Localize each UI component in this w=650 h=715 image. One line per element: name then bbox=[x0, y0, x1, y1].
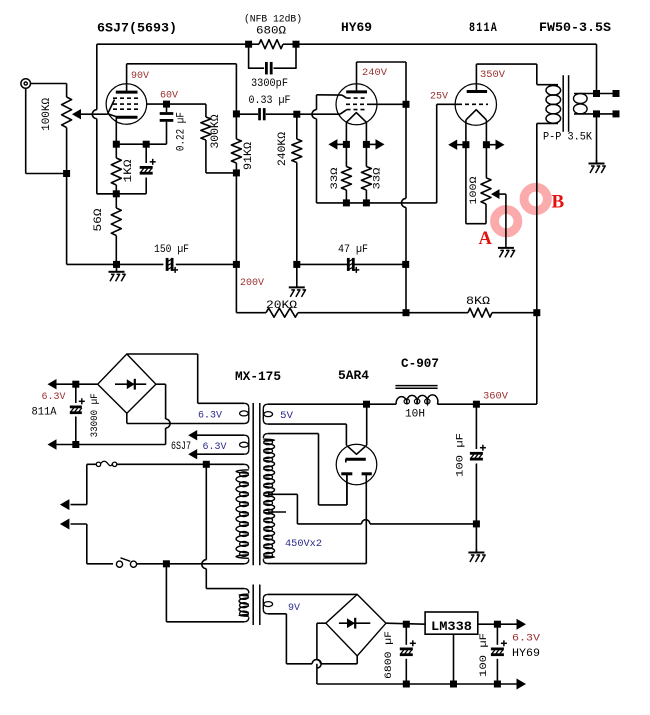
transformer 9V core bbox=[252, 585, 254, 626]
svg-text:350V: 350V bbox=[480, 69, 506, 81]
811A grid dashes bbox=[458, 103, 488, 105]
6SJ7 cathode bbox=[116, 116, 138, 119]
svg-text:240KΩ: 240KΩ bbox=[277, 132, 289, 166]
capacitor cathode bypass electrolytic bbox=[145, 144, 147, 163]
svg-text:811A: 811A bbox=[32, 407, 57, 419]
resistor 20K bbox=[266, 308, 298, 317]
wiper arrow 100ohm bbox=[491, 189, 500, 199]
wire AC input bottom bbox=[71, 523, 87, 525]
resistor 56ohm bbox=[115, 194, 117, 208]
resistor 1K cathode bbox=[115, 144, 117, 158]
wire OPT primary top lead bbox=[537, 84, 558, 86]
svg-text:FW50-3.5S: FW50-3.5S bbox=[539, 20, 611, 35]
arrow HY69 heater right bbox=[376, 139, 385, 149]
wire pot bottom to ground bus bbox=[66, 174, 68, 265]
svg-text:33Ω: 33Ω bbox=[329, 168, 341, 190]
svg-text:20KΩ: 20KΩ bbox=[266, 300, 297, 312]
wire NFB drop to 1K bottom bbox=[96, 44, 98, 110]
HY69 plate bbox=[346, 90, 367, 93]
wire wiper to ground bbox=[505, 194, 507, 246]
wire OPT secondary bottom bbox=[574, 113, 616, 115]
input jack bbox=[21, 79, 31, 89]
svg-text:6.3V: 6.3V bbox=[198, 410, 223, 422]
transformer MX core bbox=[252, 403, 254, 565]
node cathode junction row bbox=[116, 143, 166, 145]
arrow AC in 1 bbox=[60, 499, 70, 510]
tube V4 5AR4 envelope bbox=[336, 444, 377, 485]
wire fuse line bbox=[87, 463, 97, 465]
HY69 grid row1 dashes bbox=[347, 97, 367, 99]
wire NFB rail left segment bbox=[97, 43, 249, 45]
HY69 grid row2 dashes bbox=[346, 103, 369, 105]
wire heater 6SJ7 top bbox=[197, 434, 245, 436]
svg-text:680Ω: 680Ω bbox=[256, 26, 286, 38]
6SJ7 plate bbox=[116, 91, 138, 94]
wire 9V bridge DC+ lead bbox=[386, 623, 425, 624]
arrow ground rail out bbox=[517, 678, 527, 689]
wire plate rail down bbox=[235, 64, 237, 114]
wire heater 6SJ7 bottom bbox=[197, 453, 245, 455]
svg-text:150 µF: 150 µF bbox=[154, 244, 189, 256]
wire NFB rail from secondary to 680 network bbox=[297, 43, 597, 45]
wire 9V sec top to bridge bbox=[268, 593, 357, 595]
bridge rectifier main bbox=[98, 354, 156, 413]
wire bridge DC- leg bbox=[156, 383, 166, 385]
wire 811A fil left leg to pot bbox=[465, 145, 467, 224]
6SJ7 grid3 dashes bbox=[113, 108, 140, 110]
HY69 filament bbox=[346, 113, 366, 123]
wire B+ riser bbox=[536, 123, 538, 312]
capacitor 0.22uF bbox=[166, 104, 168, 112]
svg-text:33Ω: 33Ω bbox=[372, 168, 384, 190]
ground at 6SJ7 cathode bus bbox=[116, 264, 118, 271]
resistor 680ohm NFB bbox=[259, 40, 283, 49]
node HY69 filament terminals bbox=[343, 141, 350, 148]
svg-text:811A: 811A bbox=[469, 21, 498, 35]
svg-text:60V: 60V bbox=[160, 90, 179, 102]
capacitor 100uF LM bbox=[496, 624, 498, 645]
transformer OPT core bbox=[562, 75, 564, 132]
wire 811A plate to OPT bbox=[475, 64, 477, 91]
wiper arrow of 100K pot bbox=[72, 109, 81, 119]
resistor 91K plate load bbox=[235, 114, 237, 139]
HY69 grid row3 dashes bbox=[347, 109, 367, 111]
wire HY69 plate to 240V rail bbox=[356, 62, 358, 92]
tube V2 HY69 envelope bbox=[336, 84, 377, 125]
wire ground rail bottom bbox=[406, 683, 516, 685]
wire OPT secondary top bbox=[574, 93, 616, 95]
tube V3 811A envelope bbox=[455, 84, 496, 125]
svg-text:P-P 3.5K: P-P 3.5K bbox=[543, 132, 592, 144]
wire 811A filament legs bbox=[465, 120, 467, 145]
svg-text:0.22 µF: 0.22 µF bbox=[176, 112, 188, 151]
svg-text:6SJ7: 6SJ7 bbox=[171, 441, 191, 453]
arrow 811A heater left bbox=[448, 139, 457, 149]
ground PSU main bbox=[475, 549, 477, 553]
svg-text:6.3V: 6.3V bbox=[203, 441, 228, 453]
switch bbox=[116, 561, 122, 567]
svg-text:1KΩ: 1KΩ bbox=[123, 159, 135, 182]
arrow 6.3V 811A plus bbox=[56, 383, 76, 385]
wire 91K bottom to 200V node bbox=[235, 173, 237, 265]
svg-text:MX-175: MX-175 bbox=[235, 369, 281, 384]
wire 5V bottom lead bbox=[268, 423, 347, 425]
6SJ7 grid chevron bbox=[108, 100, 117, 117]
winding 6.3V 6SJ7 bbox=[244, 435, 249, 440]
wire 6SJ7 plate to 90V rail bbox=[126, 64, 128, 92]
wire bridge AC1 bbox=[127, 353, 198, 355]
winding 6.3V 811A bbox=[244, 403, 249, 408]
wire parallel feed down bbox=[205, 464, 207, 559]
wire winding1 top lead bbox=[198, 402, 245, 404]
svg-text:360V: 360V bbox=[483, 391, 509, 403]
wire 5AR4 filament right to B+ bbox=[366, 404, 368, 445]
node B marker ring bbox=[524, 187, 547, 210]
wire bridge AC2 bbox=[126, 413, 128, 423]
svg-text:(NFB 12dB): (NFB 12dB) bbox=[244, 14, 302, 26]
svg-text:91KΩ: 91KΩ bbox=[243, 142, 255, 170]
arrow 6.3V 811A minus bbox=[56, 444, 76, 446]
resistor 33ohm left bbox=[345, 144, 347, 166]
svg-text:100 µF: 100 µF bbox=[455, 433, 467, 477]
5AR4 filament bbox=[346, 445, 366, 454]
svg-text:9V: 9V bbox=[288, 602, 301, 614]
wire 811A grid entry bbox=[437, 103, 458, 105]
svg-text:6.3V: 6.3V bbox=[512, 633, 541, 645]
svg-text:B: B bbox=[552, 192, 565, 213]
svg-text:5AR4: 5AR4 bbox=[338, 368, 369, 383]
capacitor 0.33uF coupling bbox=[236, 113, 258, 115]
svg-text:6.3V: 6.3V bbox=[42, 391, 67, 403]
wire bridge DC+ to cap bbox=[76, 383, 98, 385]
811A filament bbox=[466, 110, 487, 120]
ground bus segment 1 with 150uF bbox=[117, 263, 164, 265]
capacitor 3300pF bbox=[249, 44, 265, 68]
5AR4 plate left bbox=[341, 472, 352, 475]
svg-text:10H: 10H bbox=[405, 409, 425, 421]
wire AC input top bbox=[86, 464, 88, 504]
wire coupling to HY69 grid bbox=[297, 113, 340, 115]
fuse bbox=[96, 462, 100, 466]
stub 450V tap2 bbox=[268, 511, 286, 513]
ground at 240K bus bbox=[296, 264, 298, 287]
wire 5V top lead to B+ node bbox=[268, 403, 367, 405]
svg-text:6800 µF: 6800 µF bbox=[383, 631, 395, 679]
svg-text:5V: 5V bbox=[280, 410, 294, 422]
resistor 300K bbox=[205, 104, 207, 117]
regulator LM338 box bbox=[425, 612, 478, 634]
choke C-907 coil bbox=[396, 395, 438, 404]
tube V1 6SJ7 envelope bbox=[106, 84, 147, 125]
svg-text:LM338: LM338 bbox=[431, 619, 472, 634]
wire switch to primary bottom bbox=[137, 563, 245, 565]
svg-text:C-907: C-907 bbox=[401, 356, 439, 371]
potentiometer 100K bbox=[62, 97, 72, 128]
svg-text:450Vx2: 450Vx2 bbox=[285, 538, 322, 550]
wire 450V tap bbox=[268, 493, 297, 495]
transformer OPT primary coil bbox=[546, 86, 561, 96]
wire OPT primary bottom lead bbox=[537, 122, 558, 124]
ground hum pot bbox=[505, 246, 507, 248]
diode in 9V bridge bbox=[339, 622, 370, 624]
svg-text:100 µF: 100 µF bbox=[478, 633, 490, 677]
svg-text:100KΩ: 100KΩ bbox=[41, 98, 53, 131]
capacitor 47uF electrolytic bbox=[347, 258, 350, 271]
arrow 6.3V output bbox=[517, 619, 527, 630]
ground OPT secondary bbox=[596, 160, 598, 164]
wire 6SJ7 screen to 60V node bbox=[146, 103, 206, 105]
svg-text:3300pF: 3300pF bbox=[251, 78, 288, 90]
wire 5AR4 plate leads bbox=[346, 474, 348, 505]
6SJ7 grid2 dashes bbox=[113, 103, 141, 105]
wire HY69 anode rail down bbox=[405, 62, 407, 104]
winding 9V secondary bbox=[263, 594, 268, 599]
wire screen drop bbox=[316, 95, 318, 110]
node 1K bottom row bbox=[97, 193, 146, 195]
wire 9V primary bottom feed bbox=[165, 564, 167, 622]
arrow AC in 2 bbox=[60, 518, 70, 529]
wire HY69 beam plates to anode bbox=[369, 103, 406, 105]
wire bias line to 811A grid bbox=[317, 202, 437, 204]
svg-text:HY69: HY69 bbox=[512, 648, 540, 660]
wire LM338 adj pin bbox=[453, 634, 455, 684]
wire jack sleeve to pot bottom bbox=[25, 88, 27, 173]
node A marker ring bbox=[495, 210, 518, 233]
wire secondary bottom to ground bbox=[596, 114, 598, 163]
811A plate bbox=[467, 90, 487, 93]
winding 9V primary bbox=[244, 589, 249, 594]
wire 450V bottom lead bbox=[268, 563, 367, 565]
svg-text:A: A bbox=[479, 229, 493, 249]
resistor 33ohm right bbox=[365, 144, 367, 166]
arrow 811A heater right bbox=[496, 139, 505, 149]
wire HY69 screen tie bbox=[342, 95, 347, 98]
diode in main bridge bbox=[115, 383, 146, 385]
svg-text:90V: 90V bbox=[131, 70, 150, 82]
6SJ7 grid1 dashes bbox=[113, 97, 140, 99]
svg-text:0.33 µF: 0.33 µF bbox=[249, 95, 291, 107]
svg-text:200V: 200V bbox=[240, 277, 265, 289]
winding primary main bbox=[244, 464, 249, 469]
capacitor 100uF PSU bbox=[475, 404, 477, 449]
svg-text:240V: 240V bbox=[362, 67, 388, 79]
bridge rectifier 9V bbox=[326, 594, 386, 656]
capacitor 6800uF bbox=[405, 624, 407, 645]
svg-text:8KΩ: 8KΩ bbox=[466, 296, 490, 308]
winding 450V bbox=[263, 434, 268, 439]
svg-text:HY69: HY69 bbox=[341, 20, 372, 35]
wire PSU ground stub bbox=[475, 524, 477, 552]
svg-text:6SJ7(5693): 6SJ7(5693) bbox=[97, 21, 177, 36]
wire 200V node down to 20K line bbox=[235, 264, 237, 312]
ground bus segment 2 with 47uF bbox=[297, 263, 348, 265]
svg-text:47 µF: 47 µF bbox=[338, 244, 368, 256]
resistor 240K grid leak bbox=[296, 114, 298, 139]
node 811A filament terminals bbox=[462, 141, 469, 148]
svg-text:33000 µF: 33000 µF bbox=[89, 393, 101, 437]
wire 9V bridge DC- leg bbox=[317, 622, 326, 624]
wire HY69 filament legs bbox=[345, 122, 347, 144]
wire primary top lead bbox=[206, 463, 244, 465]
arrow HY69 heater left bbox=[328, 139, 337, 149]
resistor 8K bbox=[468, 308, 492, 317]
5AR4 plate right bbox=[362, 472, 372, 475]
svg-text:25V: 25V bbox=[430, 91, 449, 103]
potentiometer 100ohm hum bbox=[485, 145, 487, 178]
capacitor 150uF electrolytic bbox=[166, 258, 169, 271]
wire jack to pot top bbox=[31, 83, 67, 85]
5AR4 cathode bar bbox=[346, 458, 366, 461]
wire 6SJ7 cathode lead bbox=[115, 117, 117, 144]
svg-text:300KΩ: 300KΩ bbox=[210, 114, 222, 148]
capacitor 33000uF bbox=[75, 384, 77, 403]
transformer OPT secondary coil bbox=[574, 94, 588, 104]
wire 450V top lead bbox=[268, 433, 319, 435]
winding 5V bbox=[263, 404, 268, 409]
wire 9V sec bottom bbox=[268, 613, 287, 615]
svg-text:56Ω: 56Ω bbox=[93, 208, 105, 231]
wire LM338 output bbox=[478, 623, 517, 625]
svg-text:100Ω: 100Ω bbox=[468, 177, 480, 205]
wire winding1 bottom lead bbox=[127, 423, 244, 425]
choke C-907 core bbox=[395, 385, 437, 387]
wire B+ divider line bbox=[236, 312, 266, 314]
wire choke leads bbox=[367, 403, 397, 405]
